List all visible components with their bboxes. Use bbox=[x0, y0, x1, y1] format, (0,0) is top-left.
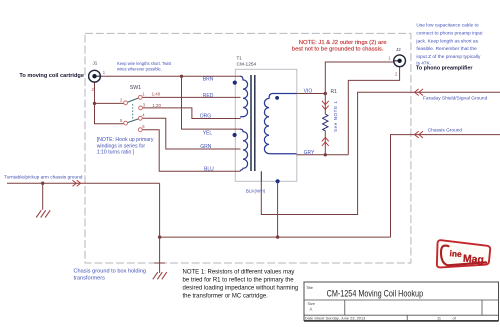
svg-text:be tried for R1 to reflect to: be tried for R1 to reflect to the primar… bbox=[183, 278, 295, 284]
wire SW1 pin1 to RED bbox=[142, 96, 240, 98]
wire BRN junction down to YEL bbox=[182, 76, 241, 129]
svg-text:CM-1254: CM-1254 bbox=[237, 62, 257, 68]
svg-text:Faraday Shield/Signal Ground: Faraday Shield/Signal Ground bbox=[423, 95, 488, 101]
SW1 pin3 circle bbox=[139, 106, 143, 110]
svg-text:of: of bbox=[453, 315, 457, 320]
transformer secondary winding (VIO-GRY) bbox=[264, 94, 296, 154]
svg-text:NOTE 1: Resistors of differen: NOTE 1: Resistors of different values ma… bbox=[183, 270, 295, 276]
wire J1 pin1 to BRN bbox=[101, 75, 241, 77]
SW1 pin5 circle bbox=[124, 121, 128, 125]
svg-text:1:40: 1:40 bbox=[152, 92, 161, 97]
ground symbol (box) bbox=[153, 272, 167, 279]
svg-text:J1: J1 bbox=[93, 61, 98, 66]
wire ground stub down bbox=[42, 183, 44, 210]
svg-text:best not to be grounded to ch: best not to be grounded to chassis. bbox=[292, 47, 384, 53]
title block size cell divider bbox=[344, 300, 346, 315]
wire turntable node down to box ground bbox=[159, 183, 161, 273]
svg-text:Chassis Ground: Chassis Ground bbox=[428, 128, 463, 134]
CineMag logo frame bbox=[437, 240, 490, 267]
svg-text:SW1: SW1 bbox=[130, 85, 141, 91]
svg-text:11: 11 bbox=[437, 315, 441, 320]
connector J2 bbox=[394, 55, 406, 67]
svg-text:Keep wire lengths short. Twis: Keep wire lengths short. Twist bbox=[117, 61, 172, 66]
transformer primary winding P1 (BRN-RED-ORG) bbox=[240, 76, 248, 117]
svg-text:To moving coil cartridge: To moving coil cartridge bbox=[19, 73, 84, 79]
svg-text:2: 2 bbox=[120, 98, 123, 103]
chevron marker chassis (left) bbox=[415, 131, 424, 138]
svg-text:jack. Keep length as short as: jack. Keep length as short as bbox=[415, 38, 478, 44]
svg-text:Chasis ground to box holding: Chasis ground to box holding bbox=[74, 268, 146, 274]
SW1 pin2 circle bbox=[124, 101, 128, 105]
wire J1 pin2 down and to SW1 poles bbox=[95, 82, 124, 123]
title block outer frame bbox=[304, 282, 499, 321]
junction VIO / R1 / J2 pin1 bbox=[324, 92, 327, 95]
wire VIO to R1 top node bbox=[297, 93, 326, 95]
chevron marker R1 bottom (up) bbox=[322, 137, 329, 146]
wire SW1 pin3 to ORG bbox=[143, 108, 241, 119]
transformer case pin dot on box bottom bbox=[276, 179, 280, 183]
wire SW1 pin4 to GRN bbox=[142, 118, 240, 149]
resistor R1 zigzag bbox=[323, 114, 328, 131]
svg-text:1: 1 bbox=[142, 92, 145, 97]
svg-text:Size: Size bbox=[308, 302, 315, 306]
svg-text:Use low capacitance cable to: Use low capacitance cable to bbox=[416, 23, 478, 29]
svg-text:NOTE: J1 & J2 outer rings (2): NOTE: J1 & J2 outer rings (2) are bbox=[299, 40, 387, 46]
chevron marker R1 top (down) bbox=[322, 101, 329, 110]
svg-text:J2: J2 bbox=[396, 47, 401, 52]
svg-text:connect to phono preamp input: connect to phono preamp input bbox=[416, 30, 483, 36]
CineMag logo C with underline tail bbox=[441, 246, 486, 266]
connector J1 bbox=[89, 70, 101, 82]
svg-text:Turntable/pickup arm chassis g: Turntable/pickup arm chassis ground bbox=[4, 175, 83, 181]
svg-text:BLK(WH): BLK(WH) bbox=[246, 188, 266, 193]
wire GRY to right bbox=[297, 154, 349, 156]
svg-text:Date Sheet Sunday, June 23,: Date Sheet Sunday, June 23, 2013 bbox=[305, 315, 365, 320]
junction R1 bottom on GRY bbox=[324, 153, 327, 156]
svg-text:the transformer or MC cartridg: the transformer or MC cartridge. bbox=[183, 293, 269, 299]
title block bottom thick border bbox=[304, 320, 499, 322]
ground symbol (turntable) bbox=[36, 210, 50, 217]
svg-text:CM-1254 Moving Coil Hookup: CM-1254 Moving Coil Hookup bbox=[327, 289, 424, 299]
junction turntable ground stub bbox=[41, 182, 44, 185]
resistor R1 vertical leads bbox=[324, 94, 326, 115]
svg-text:input Z of the preamp typicall: input Z of the preamp typically bbox=[416, 54, 481, 60]
SW1 pin4 circle bbox=[138, 116, 142, 120]
svg-text:5: 5 bbox=[120, 118, 123, 123]
wire SW1 pin6 to BLU bbox=[142, 130, 240, 172]
chevron marker turntable (right) bbox=[72, 180, 80, 186]
svg-text:windings in series for: windings in series for bbox=[97, 144, 146, 150]
svg-text:YEL: YEL bbox=[203, 130, 213, 136]
svg-text:See NOTE 1: See NOTE 1 bbox=[333, 101, 338, 132]
wire faraday shield: transformer shield down, right, up, to right edge bbox=[261, 92, 500, 214]
title block right cell divider bbox=[481, 300, 483, 315]
junction chassis bus at box pin bbox=[276, 235, 279, 238]
switch SW1 pole A lever bbox=[127, 98, 138, 102]
svg-text:R1: R1 bbox=[331, 89, 338, 95]
svg-text:desired loading impedance with: desired loading impedance without harmin… bbox=[183, 286, 299, 292]
svg-text:6: 6 bbox=[142, 124, 145, 129]
polarity dot P1 bbox=[233, 81, 237, 85]
wire R1 node up to J2 pin1 bbox=[325, 62, 393, 94]
svg-text:A: A bbox=[310, 307, 313, 312]
polarity dot P2 bbox=[233, 133, 237, 137]
svg-text:To phono preamplifier: To phono preamplifier bbox=[416, 66, 473, 72]
polarity dot secondary bbox=[275, 96, 279, 100]
svg-text:wires wherever possible.: wires wherever possible. bbox=[117, 66, 162, 71]
switch SW1 pole B lever bbox=[127, 119, 138, 123]
svg-text:feasible. Remember that the: feasible. Remember that the bbox=[416, 46, 477, 52]
svg-text:[NOTE: Hook up primary: [NOTE: Hook up primary bbox=[97, 137, 154, 143]
wire chassis bus horizontal bbox=[160, 236, 391, 238]
wire GRY up to J2 pin2 bbox=[348, 67, 399, 155]
title block row divider 1 bbox=[304, 299, 499, 301]
svg-text:1: 1 bbox=[388, 56, 391, 61]
junction on chassis bus bbox=[158, 235, 161, 238]
SW1 pin6 circle bbox=[138, 128, 142, 132]
transformer faraday shield lead (navy, inside box) bbox=[260, 171, 262, 181]
chevron marker faraday (left) bbox=[415, 89, 424, 96]
svg-text:T1: T1 bbox=[237, 56, 243, 61]
svg-text:Title: Title bbox=[306, 286, 313, 290]
wire chassis: box bottom pin down to chassis bus bbox=[277, 181, 279, 237]
junction at J1 pin2 vertical bbox=[93, 102, 96, 105]
SW1 pin1 circle bbox=[138, 96, 142, 100]
tick where wire crosses enclosure bbox=[154, 262, 165, 264]
svg-text:transformers: transformers bbox=[74, 276, 106, 282]
title block date cell divider bbox=[406, 315, 408, 320]
wire turntable chassis ground horizontal bbox=[7, 182, 160, 184]
switch SW1 gang link dashed bbox=[132, 104, 134, 120]
svg-text:2: 2 bbox=[395, 72, 398, 77]
title block row divider 2 bbox=[304, 314, 499, 316]
svg-text:BRN: BRN bbox=[203, 76, 214, 82]
transformer core lines bbox=[250, 75, 252, 171]
wire chassis bus up and right to edge bbox=[391, 135, 500, 238]
svg-text:1:20: 1:20 bbox=[152, 103, 161, 108]
svg-text:Mag: Mag bbox=[463, 254, 485, 266]
enclosure dashed box (box holding transformers) bbox=[85, 33, 411, 263]
svg-text:ine: ine bbox=[449, 248, 462, 259]
junction on BRN wire bbox=[180, 75, 183, 78]
svg-text:1: 1 bbox=[103, 70, 106, 75]
wire stub to SW1 pin2 bbox=[95, 102, 124, 104]
svg-text:3: 3 bbox=[143, 102, 146, 107]
transformer T1 body box bbox=[235, 69, 296, 181]
transformer primary winding P2 (YEL-GRN-BLU) bbox=[240, 129, 248, 170]
svg-text:1:10 turns ratio ]: 1:10 turns ratio ] bbox=[97, 150, 135, 156]
svg-text:4: 4 bbox=[142, 113, 145, 118]
